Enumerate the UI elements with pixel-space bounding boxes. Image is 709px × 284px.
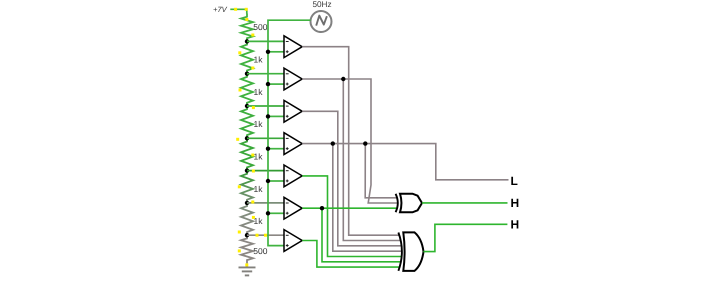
- junction node ladder tap 3: [245, 104, 249, 108]
- wire AC bus stub to op-amp U3 plus input: [268, 115, 284, 117]
- wire AC bus stub to op-amp U5 plus input: [268, 180, 284, 182]
- R8 value label 500: [253, 246, 267, 256]
- resistor R4 1k: [241, 106, 253, 138]
- resistor R3 1k: [241, 74, 253, 106]
- wire ladder tap 6 to op-amp U6 minus input: [247, 202, 284, 204]
- svg-text:H: H: [511, 218, 520, 232]
- resistor R1 500 (top of ladder): [241, 14, 253, 42]
- op-amp comparator U4: [284, 133, 302, 155]
- svg-text:1k: 1k: [254, 151, 264, 161]
- svg-text:1k: 1k: [254, 216, 264, 226]
- wire U7 output to XOR2 input 7: [302, 241, 399, 268]
- svg-text:500: 500: [253, 22, 267, 32]
- svg-text:1k: 1k: [254, 87, 264, 97]
- junction node ladder tap 7: [245, 233, 249, 237]
- logic output label H (bit0): [511, 218, 520, 232]
- wire U1 output to XOR2 input 1: [302, 47, 399, 236]
- wire U6 output to XOR1 input 3: [322, 207, 397, 209]
- current dots on ladder: [234, 8, 267, 267]
- wire U4 output branch to XOR1 input 1: [333, 144, 397, 198]
- op-amp comparator U1: [284, 36, 302, 58]
- wire ladder tap 7 to op-amp U7 minus input: [247, 234, 284, 236]
- svg-text:L: L: [511, 174, 518, 188]
- junction node ladder tap 1: [245, 39, 249, 43]
- svg-text:1k: 1k: [254, 184, 264, 194]
- R6 value label 1k: [254, 184, 264, 194]
- svg-text:1k: 1k: [254, 119, 264, 129]
- junction node U2 output tee: [341, 77, 345, 81]
- wire AC source to comparator + bus: [268, 20, 311, 245]
- wire ladder tap 3 to op-amp U3 minus input: [247, 105, 284, 107]
- junction node AC bus 6: [266, 211, 270, 215]
- R1 value label 500: [253, 22, 267, 32]
- junction node AC bus 4: [266, 147, 270, 151]
- resistor R6 1k: [241, 171, 253, 203]
- wire ladder tap 2 to op-amp U2 minus input: [247, 73, 284, 75]
- wire ladder tap 5 to op-amp U5 minus input: [247, 170, 284, 172]
- junction node AC bus 3: [266, 114, 270, 118]
- svg-text:1k: 1k: [254, 55, 264, 65]
- R5 value label 1k: [254, 151, 264, 161]
- wire U4 output to output L: [365, 144, 508, 180]
- wire +7V rail to ladder top: [230, 9, 247, 13]
- junction node U4 output tee 1: [331, 141, 335, 145]
- svg-text:500: 500: [253, 246, 267, 256]
- svg-text:50Hz: 50Hz: [312, 0, 331, 9]
- ground: [239, 263, 256, 275]
- junction node AC bus 2: [266, 82, 270, 86]
- op-amp comparator U5: [284, 165, 302, 187]
- resistor R8 500 (bottom of ladder): [241, 235, 253, 263]
- junction node AC bus 5: [266, 179, 270, 183]
- R2 value label 1k: [254, 55, 264, 65]
- R3 value label 1k: [254, 87, 264, 97]
- wire U2 output to XOR1 input 2: [343, 79, 398, 203]
- svg-text:+7V: +7V: [213, 5, 228, 14]
- op-amp comparator U2: [284, 68, 302, 90]
- resistor R7 1k: [241, 203, 253, 235]
- junction node AC bus 1: [266, 50, 270, 54]
- R4 value label 1k: [254, 119, 264, 129]
- junction node ladder tap 4: [245, 136, 249, 140]
- op-amp comparator U6: [284, 197, 302, 219]
- wire AC bus stub to op-amp U2 plus input: [268, 83, 284, 85]
- XOR gate XOR2: [398, 232, 423, 271]
- wire AC bus stub to op-amp U1 plus input: [268, 51, 284, 53]
- label +7V supply: [213, 5, 228, 14]
- wire ladder tap 1 to op-amp U1 minus input: [247, 40, 284, 42]
- V1 label 50Hz: [312, 0, 331, 9]
- XOR gate XOR1: [396, 194, 422, 213]
- wire ladder tap 4 to op-amp U4 minus input: [247, 137, 284, 139]
- svg-text:H: H: [511, 196, 520, 210]
- junction node ladder tap 2: [245, 72, 249, 76]
- wire U4 output branch to XOR2 input 4: [302, 144, 402, 252]
- wire U6 output branch to XOR2 input 6: [302, 208, 401, 262]
- wire U3 output to XOR2 input 3: [302, 111, 401, 246]
- AC voltage source V1 (1-terminal): [311, 11, 332, 32]
- junction node U6 output tee: [320, 206, 324, 210]
- R7 value label 1k: [254, 216, 264, 226]
- logic output label H (bit1): [511, 196, 520, 210]
- wire U5 output to XOR2 input 5: [302, 176, 402, 257]
- wire AC bus stub to op-amp U6 plus input: [268, 212, 284, 214]
- wire XOR1 output to H: [422, 202, 508, 204]
- wire U2 output branch to XOR2 input 2: [302, 79, 401, 241]
- wire XOR2 output to H: [423, 224, 507, 251]
- wire AC bus stub to op-amp U4 plus input: [268, 148, 284, 150]
- op-amp comparator U7: [284, 230, 302, 252]
- resistor R5 1k: [241, 138, 253, 170]
- junction node U4 output tee 2: [363, 141, 367, 145]
- junction node ladder tap 5: [245, 168, 249, 172]
- op-amp comparator U3: [284, 100, 302, 122]
- logic output label L: [511, 174, 518, 188]
- resistor R2 1k: [241, 41, 253, 73]
- junction node ladder tap 6: [245, 201, 249, 205]
